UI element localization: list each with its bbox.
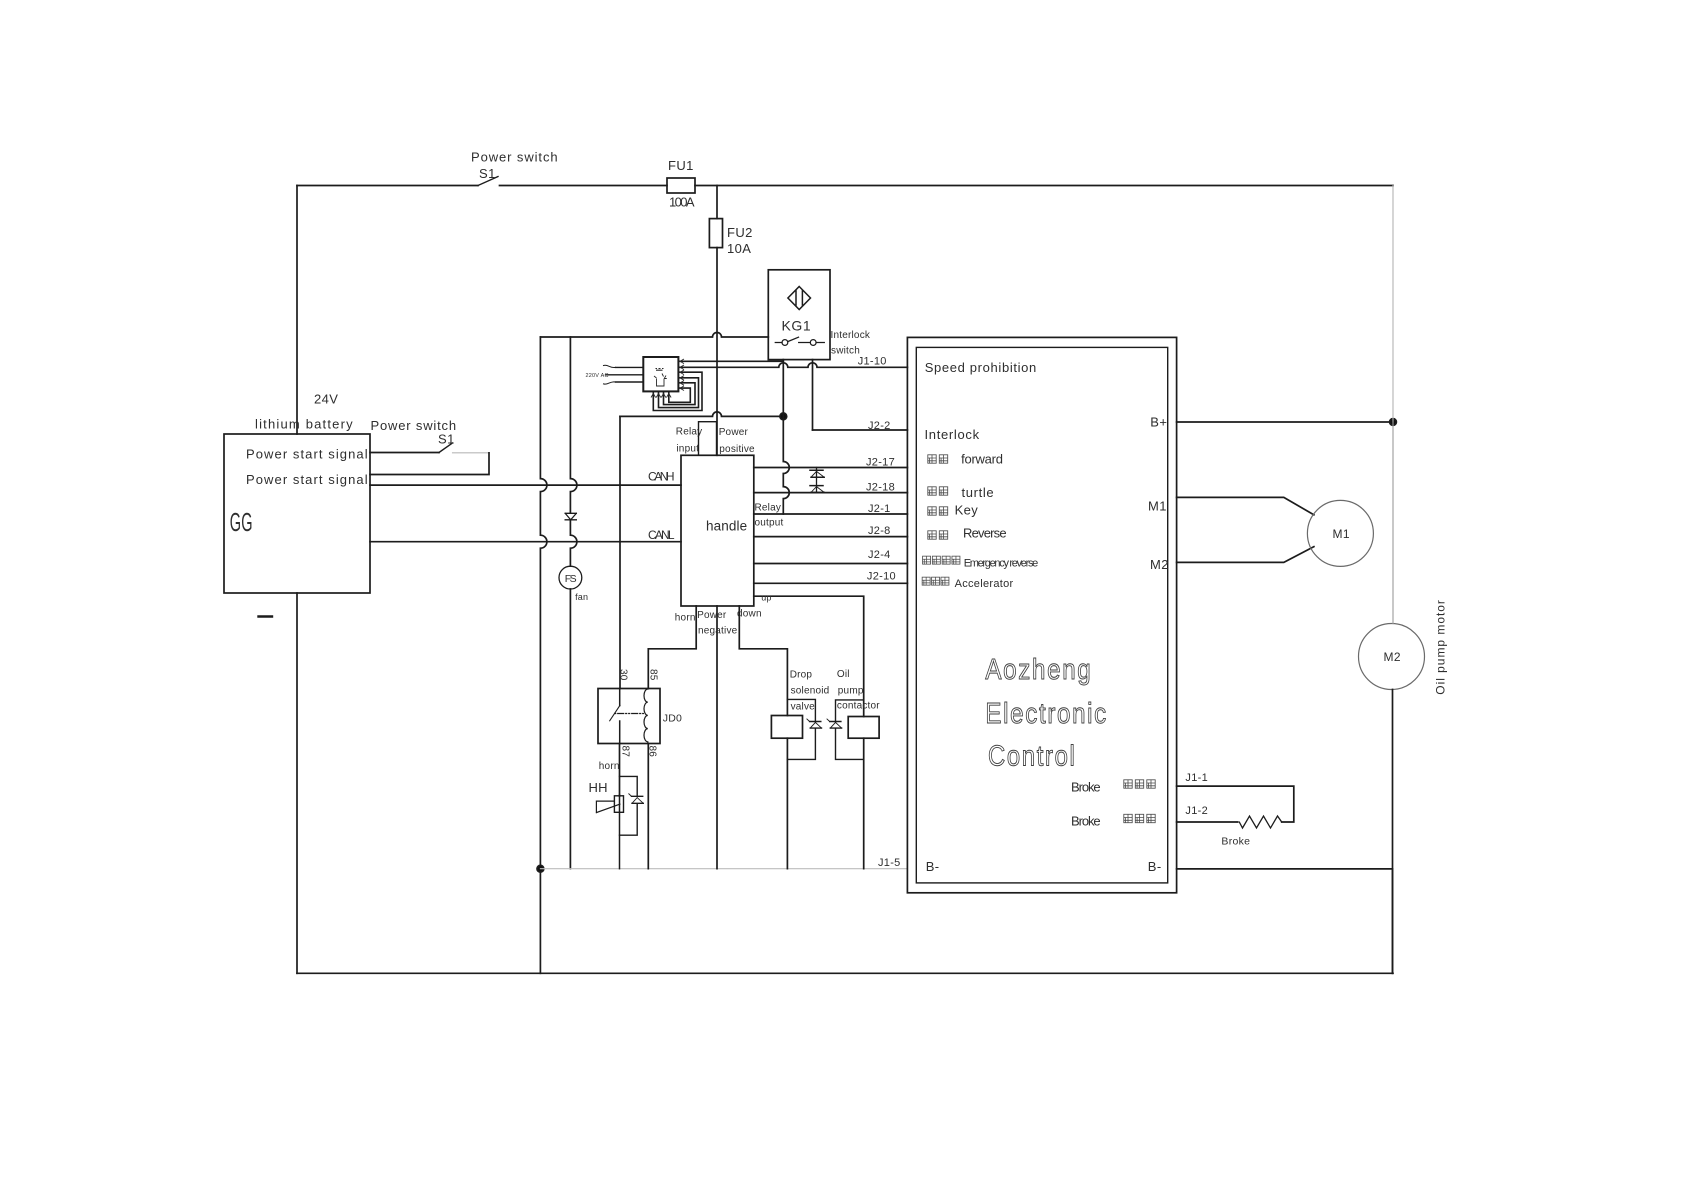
svg-text:B+: B+ [1150,415,1167,430]
svg-text:FS: FS [565,573,577,585]
charger interior marks [654,374,667,387]
svg-text:M2: M2 [1150,557,1169,572]
svg-text:Accelerator: Accelerator [955,578,1014,590]
cjk 前进 [928,455,936,463]
svg-text:Electronic: Electronic [985,698,1108,730]
KG1 internal interlock switch [775,337,824,342]
svg-text:J2-8: J2-8 [868,525,891,537]
svg-text:B-: B- [1148,859,1162,874]
big brand text [985,654,1108,773]
wire J1-1 brake lead [1177,786,1294,822]
wire J2-8 handle to controller [754,536,908,538]
wire M1 upper lead [1177,497,1314,514]
wire J2-10 handle to controller [754,582,908,584]
svg-text:forward: forward [961,452,1003,467]
node junction dot x540/J1-5 [537,865,544,872]
wire oil pump contactor bottom to J1-5 [863,738,865,869]
wire J2-18 handle to controller [754,492,908,494]
wire down pin to drop valve [739,606,787,716]
charger loop pin6 innermost [669,388,691,402]
CAN suppressor diodes vertical [816,468,818,493]
svg-text:J2-4: J2-4 [868,549,891,561]
wire horn diode branch [620,776,638,835]
svg-text:Oil: Oil [837,669,850,680]
svg-text:30: 30 [618,669,629,681]
wire top rail S1 to FU1 [500,185,668,187]
wire power negative handle to J1-5 [716,606,718,869]
wire relay output vertical x783 [783,416,789,514]
cjk 龟速 [928,487,936,495]
svg-text:86: 86 [647,746,658,758]
wire x540 to bottom rail [539,869,541,974]
svg-text:220V AC: 220V AC [586,373,609,379]
cjk 钥匙 [928,507,936,515]
svg-text:output: output [755,517,784,528]
horn HH body [614,796,623,813]
svg-text:KG1: KG1 [782,318,812,334]
diode D5 drop valve flyback [810,722,822,729]
svg-text:positive: positive [719,444,755,455]
svg-text:Power start signal: Power start signal [246,472,368,487]
wire J1-5 light rail [540,868,907,870]
svg-text:S1: S1 [438,432,455,447]
svg-text:J1-2: J1-2 [1185,805,1208,817]
diode D2 upper CAN suppressor [810,470,824,477]
charger box [643,357,678,391]
svg-text:solenoid: solenoid [791,685,830,696]
svg-text:M2: M2 [1384,650,1401,664]
JDD coil [644,689,648,744]
charger pin clip marks [651,359,684,398]
svg-text:Interlock: Interlock [925,427,980,442]
svg-text:100A: 100A [669,195,695,210]
battery GG box [224,434,370,593]
contactor KG1 box [768,270,830,360]
svg-text:24V: 24V [314,392,338,407]
svg-text:Power start signal: Power start signal [246,446,368,461]
svg-text:CANL: CANL [648,528,675,542]
svg-text:J2-17: J2-17 [866,457,895,469]
KG1 diamond symbol [788,287,811,310]
wire drop valve bottom to J1-5 [786,738,788,869]
controller outer box [907,337,1176,892]
wire drop valve diode branch [787,699,815,759]
svg-text:FU1: FU1 [668,158,694,173]
wire interlock feed horizontal to KG1 [540,333,768,337]
svg-text:handle: handle [706,519,748,534]
charger loop pin3 outermost [653,372,702,410]
svg-text:horn: horn [675,613,696,624]
JDD internal contact [619,689,621,744]
svg-text:Aozheng: Aozheng [985,654,1092,686]
wire charger AC input lines [606,367,643,382]
motor M2 circle [1359,624,1425,690]
wire J2-4 handle to controller [754,563,908,565]
wire left bus vertical x540 [540,337,547,869]
oil pump contactor coil [848,717,879,739]
svg-text:CANH: CANH [648,470,675,484]
wire KG1 right pin down [812,360,814,430]
wire M1 lower lead [1177,547,1314,563]
svg-text:Broke: Broke [1071,780,1101,795]
svg-text:input: input [676,444,699,455]
diode D4 horn flyback [632,796,644,803]
horn HH bell [596,801,620,813]
switch S1 (top power switch) blade [478,177,498,186]
svg-text:J2-1: J2-1 [868,503,891,515]
svg-text:J1-1: J1-1 [1185,772,1208,784]
wire KG1 left pin down to node [782,360,784,417]
wire oil pump contactor diode branch [836,700,864,760]
wire left rail upper (battery + to top rail) [296,186,298,435]
wire power start signal out [370,452,439,454]
svg-text:lithium battery: lithium battery [255,417,353,432]
wire top rail left segment [297,185,478,187]
cjk 制动器 row1 [1124,780,1132,788]
motor M1 circle [1307,500,1373,566]
drop solenoid valve coil [771,716,802,739]
wire power start signal return loop [370,453,489,475]
svg-text:negative: negative [698,626,738,637]
svg-text:fan: fan [575,592,588,602]
svg-text:85: 85 [648,669,659,681]
controller inner box [916,347,1167,883]
relay input stub box [699,422,717,456]
switch S1 (battery power switch) blade [439,443,453,453]
wire JDD pin87 lower to J1-5 [619,795,621,869]
svg-text:Oil pump motor: Oil pump motor [1434,600,1448,695]
wire J1-2 brake lead [1177,821,1238,823]
svg-text:B-: B- [926,859,940,874]
svg-text:Emergency reverse: Emergency reverse [964,558,1039,570]
wire charger pin1 to KG1 left pin [678,360,783,362]
resistor brake [1237,816,1282,828]
wire up pin to oil pump contactor [754,596,864,716]
svg-text:Reverse: Reverse [963,526,1007,541]
svg-text:switch: switch [831,346,860,357]
svg-text:Speed prohibition: Speed prohibition [925,360,1037,375]
wire fan bus vertical x570 upper [570,337,577,513]
svg-text:horn: horn [599,761,620,772]
wire top rail FU1 to right corner [695,185,1393,187]
svg-text:Power switch: Power switch [471,150,558,165]
svg-text:J2-18: J2-18 [866,482,895,494]
wire power start signal faint segment [453,452,490,454]
wire fan bus FS to J1-5 [569,589,571,869]
svg-text:valve: valve [791,701,816,712]
svg-text:Key: Key [955,502,979,517]
wire CANL battery to handle [370,541,681,543]
svg-text:JD0: JD0 [663,713,682,725]
wire J2-17 handle to controller [754,467,908,469]
svg-text:J1-10: J1-10 [858,355,887,367]
cjk 加速器 [922,577,930,585]
svg-text:10A: 10A [727,241,751,256]
svg-text:Control: Control [988,741,1077,773]
svg-text:Broke: Broke [1221,836,1250,848]
fuse FU1 [667,178,695,193]
wire JDD pin87 upper [619,744,621,797]
svg-text:turtle: turtle [962,485,995,500]
svg-text:Power: Power [719,427,749,438]
controller text group [925,360,1448,874]
diode D6 oil pump flyback [830,722,842,729]
svg-text:J2-10: J2-10 [867,571,896,583]
relay JDD box [598,689,660,744]
wire J2-2 to controller [813,429,908,431]
svg-text:pump: pump [838,685,864,696]
charger loop pin4 [659,378,699,408]
svg-text:up: up [761,593,771,603]
wire JDD pin86 to J1-5 [647,744,649,869]
wire B- to right rail [1177,869,1393,973]
svg-text:J2-2: J2-2 [868,420,891,432]
svg-text:Drop: Drop [790,669,813,680]
svg-text:Interlock: Interlock [831,330,871,341]
wire left rail lower (battery - to bottom rail) [296,593,298,973]
wire horn pin from handle [648,606,696,689]
svg-text:Relay: Relay [676,427,703,438]
svg-text:Broke: Broke [1071,814,1101,829]
svg-text:down: down [737,609,762,620]
fuse FU2 [709,219,722,248]
wire CANH battery to handle [370,484,681,486]
wire right rail M2 to bottom [1392,690,1394,974]
svg-text:Relay: Relay [755,503,782,514]
wire power positive vertical FU2 to handle [716,248,718,456]
wire bottom rail [297,972,1393,974]
cjk 制动器 row2 [1124,814,1132,822]
svg-text:contactor: contactor [837,700,880,711]
wire J1-10 from charger pin2 to controller [678,363,907,368]
cjk 后退 [928,531,936,539]
wire power positive horizontal to relay node [620,412,783,417]
wire FU2 feed from top rail [716,186,718,219]
svg-text:HH: HH [589,780,608,795]
wire J2-1 relay output to controller [754,513,908,515]
svg-text:87: 87 [620,746,631,758]
wire fan bus between diode and CANL [570,520,577,566]
svg-text:GG: GG [230,507,253,537]
wire right rail gray B+ to M2 [1392,422,1394,624]
svg-text:Power: Power [697,610,727,621]
wire B+ to right rail [1177,421,1393,423]
fan FS circle [559,566,582,589]
diode D1 on fan bus [565,513,576,520]
wire right rail gray upper [1392,186,1394,423]
charger loop pin5 [664,383,696,405]
svg-text:S1: S1 [479,166,496,181]
node junction dot B+ [1390,419,1397,426]
handle box [681,455,754,606]
diode D3 lower CAN suppressor [810,486,824,493]
svg-text:FU2: FU2 [727,225,753,240]
wire JDD pin30 feed vertical x620 [619,416,621,688]
svg-text:J1-5: J1-5 [878,857,901,869]
battery minus mark [259,615,273,617]
node junction dot power positive / KG1 [780,413,787,420]
TEXT LABELS [230,150,811,543]
svg-text:M1: M1 [1148,499,1167,514]
cjk 紧急反向 [923,556,931,564]
svg-text:M1: M1 [1333,527,1350,541]
